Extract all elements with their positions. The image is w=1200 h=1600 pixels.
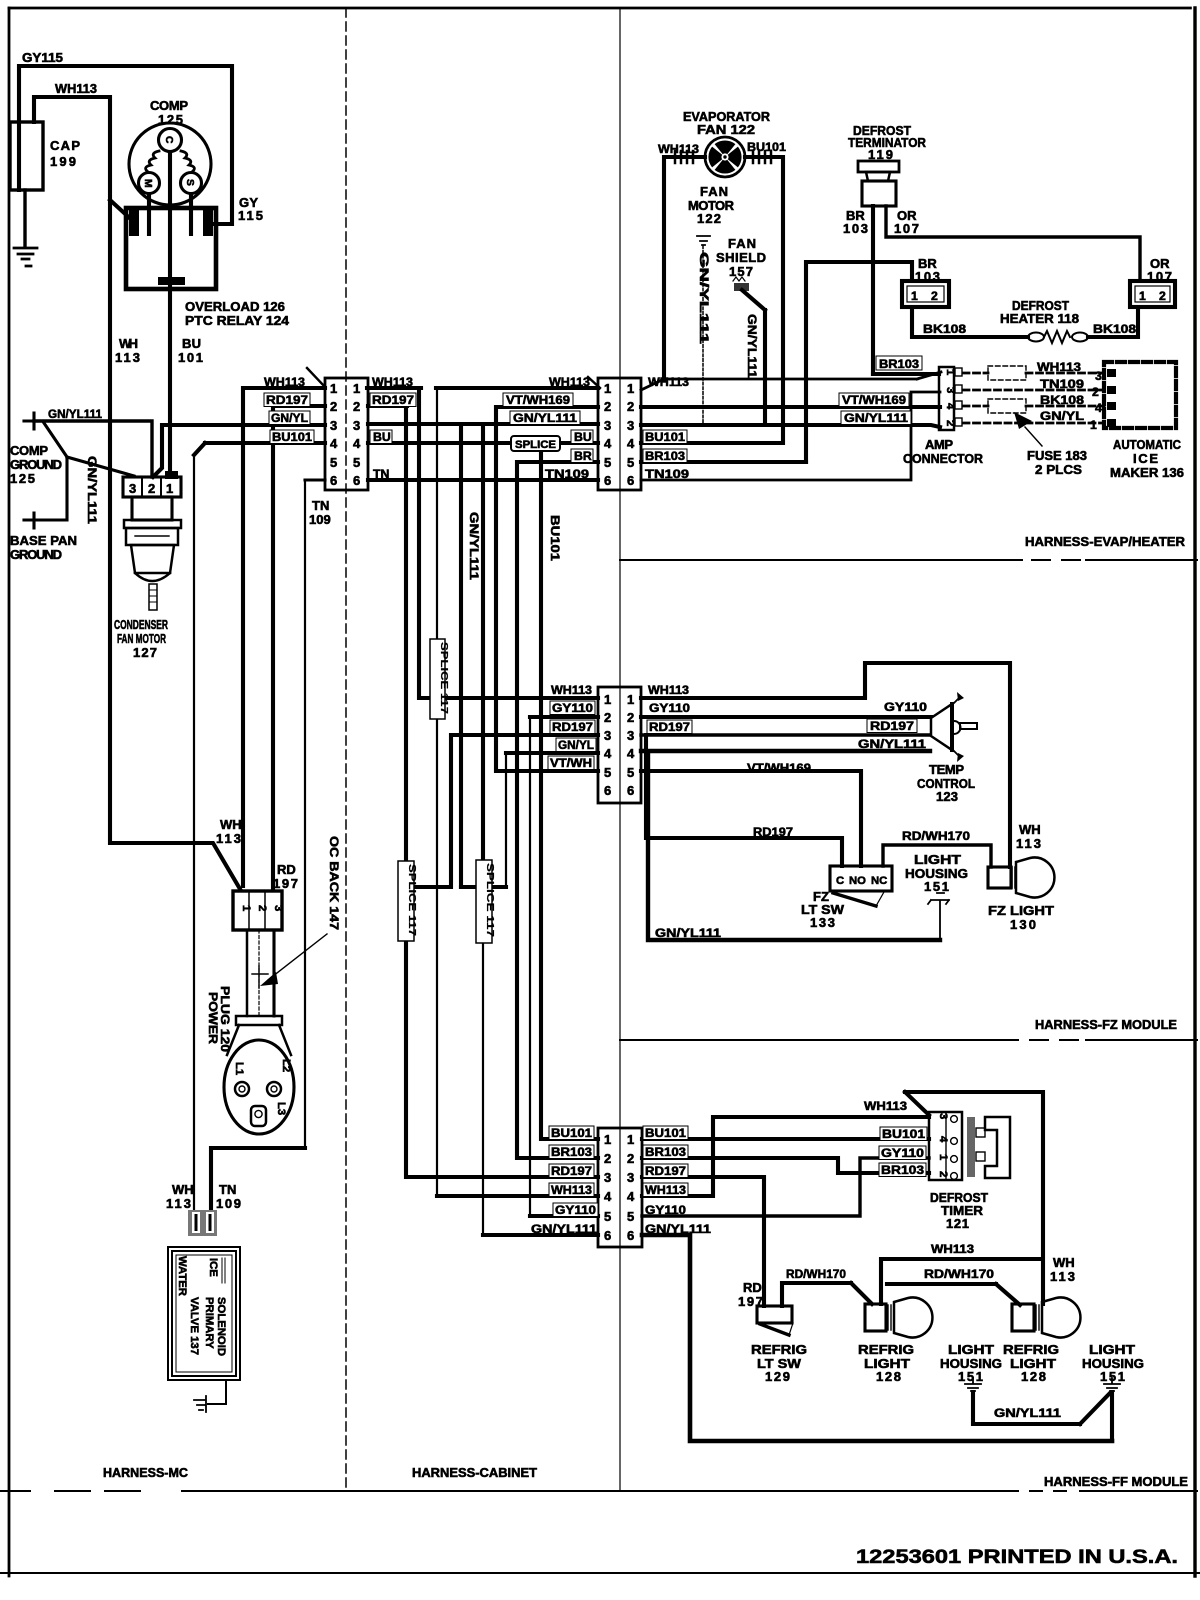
wire RD197 to temp control [641, 733, 931, 736]
svg-text:RD/WH170: RD/WH170 [902, 829, 970, 843]
svg-text:2: 2 [330, 399, 337, 414]
svg-text:2: 2 [256, 905, 268, 911]
svg-text:NC: NC [871, 875, 887, 887]
svg-text:SHIELD: SHIELD [716, 250, 766, 265]
ground (cap) [14, 248, 37, 266]
wire GN/YL111 branch to light housing ground [648, 753, 940, 940]
label GN/YL conn1 left [269, 411, 310, 425]
svg-text:BR103: BR103 [645, 449, 685, 463]
svg-text:TN109: TN109 [1040, 377, 1084, 391]
svg-text:1: 1 [604, 692, 611, 707]
wire GN/YL111 bottom run [642, 1235, 1112, 1441]
svg-text:2: 2 [1159, 289, 1166, 303]
svg-text:PLUG 120: PLUG 120 [218, 986, 232, 1052]
compressor pin C [159, 129, 182, 152]
wire WH113 from cap [34, 97, 240, 889]
svg-text:GY115: GY115 [22, 50, 63, 65]
svg-text:SPLICE 117: SPLICE 117 [406, 864, 417, 936]
svg-text:GN/YL111: GN/YL111 [994, 1406, 1061, 1420]
wire TN109 conn1 pin6 left [305, 478, 325, 481]
splice SPLICE 117 no3 [476, 860, 492, 943]
svg-text:157: 157 [729, 264, 753, 279]
svg-text:GROUND: GROUND [10, 457, 62, 472]
svg-text:RD197: RD197 [266, 393, 308, 407]
wire GY115 [19, 66, 232, 224]
svg-text:WH113: WH113 [372, 375, 413, 389]
border right [1193, 8, 1196, 1576]
svg-text:1: 1 [166, 481, 173, 496]
svg-text:3: 3 [944, 387, 956, 393]
svg-text:197: 197 [273, 876, 298, 891]
svg-text:6: 6 [353, 473, 360, 488]
svg-text:VT/WH: VT/WH [550, 756, 592, 770]
label VT/WH169 near AMP [839, 393, 909, 407]
svg-text:151: 151 [958, 1369, 983, 1384]
wire GN/YL111 to AMP [641, 425, 940, 427]
harness divider cabinet/modules [619, 8, 621, 1491]
wire BU101 conn1 pin4 left [194, 443, 325, 1210]
power plug connector 1 2 3 [233, 891, 282, 930]
label BR103 above AMP wire [876, 356, 922, 370]
compressor winding left [146, 151, 159, 172]
svg-text:3: 3 [1095, 369, 1102, 383]
svg-text:3: 3 [937, 1113, 949, 1119]
svg-text:GN/YL111: GN/YL111 [531, 1222, 597, 1236]
svg-text:5: 5 [627, 455, 634, 470]
wire RD197 to refrig lt sw [642, 1177, 764, 1306]
svg-text:HARNESS-MC: HARNESS-MC [103, 1465, 189, 1480]
ice maker box [1104, 362, 1176, 428]
ice maker pin stubs [1107, 369, 1116, 427]
connector hatch right fan wire [753, 151, 771, 163]
svg-text:C: C [163, 136, 174, 144]
svg-text:127: 127 [133, 645, 157, 660]
connector 1 2 right [1130, 281, 1175, 307]
label BR103 conn2 right [643, 449, 687, 463]
svg-text:HARNESS-FF MODULE: HARNESS-FF MODULE [1044, 1474, 1188, 1489]
svg-text:WH113: WH113 [551, 683, 592, 697]
svg-text:4: 4 [627, 746, 635, 761]
label GY110 FZ left [550, 701, 595, 715]
svg-text:6: 6 [627, 1228, 634, 1243]
svg-text:4: 4 [604, 746, 612, 761]
ground (valve) [194, 1396, 206, 1412]
compressor pin M [139, 173, 160, 194]
dashed wire GN/YL to ice maker [963, 422, 1104, 425]
splice SPLICE 117 no1 [430, 639, 445, 719]
svg-text:BU: BU [373, 430, 391, 444]
separator harness-evap/heater y560 [620, 559, 1197, 561]
wire WH113 conn1 pin1 to FZ [367, 388, 598, 698]
wire BR103 AMP feed [873, 372, 939, 376]
svg-text:5: 5 [627, 1209, 634, 1224]
svg-text:5: 5 [330, 455, 337, 470]
svg-text:3: 3 [129, 481, 136, 496]
svg-text:VT/WH169: VT/WH169 [506, 393, 570, 407]
svg-text:6: 6 [627, 473, 634, 488]
svg-text:GY110: GY110 [884, 700, 927, 714]
svg-text:GN/YL111: GN/YL111 [745, 314, 759, 378]
svg-text:2: 2 [604, 710, 611, 725]
evaporator fan 122 [705, 137, 745, 177]
svg-text:3: 3 [604, 728, 611, 743]
svg-text:4: 4 [330, 436, 338, 451]
connector 1 2 left [902, 281, 949, 307]
svg-text:SOLENOID: SOLENOID [215, 1297, 227, 1356]
connector body [188, 1210, 217, 1236]
svg-text:HARNESS-EVAP/HEATER: HARNESS-EVAP/HEATER [1025, 534, 1186, 549]
svg-text:1: 1 [627, 1132, 634, 1147]
svg-text:2: 2 [1092, 385, 1099, 399]
ground (fan motor) [697, 236, 710, 245]
wire GN/YL111 link at y887 [461, 885, 506, 889]
svg-text:GN/YL111: GN/YL111 [513, 411, 577, 425]
wire GN/YL111 branch to motor pin3 [67, 457, 134, 476]
svg-text:2: 2 [148, 481, 155, 496]
svg-text:107: 107 [894, 221, 919, 236]
svg-text:3: 3 [627, 1170, 634, 1185]
svg-text:VT/WH169: VT/WH169 [747, 761, 811, 775]
connector cabinet/FF box [598, 1128, 642, 1247]
labels FF left [549, 1126, 594, 1140]
svg-text:1: 1 [944, 369, 956, 375]
svg-text:BU101: BU101 [882, 1127, 925, 1141]
wire GN/YL111 row pin3 [368, 422, 598, 426]
wire BK108 left [912, 307, 1028, 337]
wire GN/YL111 between grounds [973, 1392, 1110, 1424]
label BR103 timer [879, 1163, 926, 1177]
svg-text:1: 1 [627, 692, 634, 707]
border left [8, 8, 11, 1576]
svg-text:GY110: GY110 [555, 1203, 596, 1217]
label RD197 conn1 right [370, 393, 416, 407]
wire GN/YL111 tap A [459, 424, 463, 887]
svg-text:COMP: COMP [10, 443, 48, 458]
svg-text:129: 129 [765, 1369, 790, 1384]
AMP connector body [939, 367, 954, 430]
wire GY110 to timer [642, 1158, 929, 1216]
svg-text:119: 119 [868, 147, 893, 162]
svg-text:PTC RELAY 124: PTC RELAY 124 [185, 313, 290, 328]
fuse arrow [1025, 427, 1042, 446]
dashed wire BK108 to ice maker [963, 405, 1104, 408]
svg-text:115: 115 [238, 208, 263, 223]
svg-text:OVERLOAD 126: OVERLOAD 126 [185, 299, 285, 314]
AMP right contacts [955, 368, 962, 376]
svg-text:BU101: BU101 [645, 430, 685, 444]
svg-text:2 PLCS: 2 PLCS [1035, 462, 1082, 477]
svg-text:BR: BR [574, 449, 592, 463]
svg-text:TN109: TN109 [545, 467, 589, 481]
splice SPLICE 117 no2 [398, 861, 414, 941]
refrig light 128 no2 [1012, 1298, 1080, 1338]
svg-text:3: 3 [627, 418, 634, 433]
SPLICE box pin4 [511, 436, 560, 451]
connector MC/cabinet box [325, 378, 368, 490]
svg-text:FAN: FAN [700, 184, 728, 199]
svg-text:FAN: FAN [728, 236, 756, 251]
heater element [1044, 331, 1070, 343]
svg-text:101: 101 [178, 350, 203, 365]
svg-text:CAP: CAP [50, 138, 80, 153]
svg-text:WH113: WH113 [864, 1099, 907, 1113]
svg-text:1: 1 [330, 381, 337, 396]
wire S pin [189, 194, 193, 234]
wire VT/WH169 to switch NO [641, 771, 861, 866]
dashed wire TN109 to ice maker [963, 389, 1104, 392]
svg-text:6: 6 [604, 473, 611, 488]
svg-text:2: 2 [944, 420, 956, 426]
svg-text:WATER: WATER [176, 1256, 188, 1296]
svg-text:2: 2 [931, 289, 938, 303]
label VT/WH169 conn2 left [503, 393, 573, 407]
svg-text:C: C [836, 875, 844, 887]
svg-text:BU101: BU101 [548, 515, 562, 561]
svg-text:6: 6 [330, 473, 337, 488]
label RD197 conn1 left [264, 393, 310, 407]
svg-text:WH: WH [1053, 1255, 1075, 1270]
svg-text:113: 113 [216, 831, 241, 846]
arrow from OC BACK 147 [268, 934, 327, 980]
wire BU101 compressor C down to motor pin1 [168, 152, 172, 474]
wire M pin [147, 194, 151, 234]
svg-text:113: 113 [166, 1196, 191, 1211]
wire GY110 to temp control [641, 715, 931, 719]
svg-text:RD197: RD197 [870, 719, 914, 733]
svg-text:MAKER 136: MAKER 136 [1110, 465, 1184, 480]
svg-text:BU101: BU101 [272, 430, 312, 444]
svg-text:LIGHT: LIGHT [1089, 1342, 1135, 1357]
wire BU101 to defrost timer [642, 1137, 929, 1141]
ground (light housing 2) [1104, 1378, 1120, 1391]
svg-text:5: 5 [604, 1209, 611, 1224]
label BU conn1 right [370, 430, 392, 444]
svg-text:WH113: WH113 [55, 81, 97, 96]
wire VT/WH169 to FZ pin5 [496, 407, 598, 771]
motor connector 3 2 1 [123, 477, 181, 497]
svg-text:BK108: BK108 [1040, 393, 1084, 407]
svg-text:GY110: GY110 [645, 1203, 686, 1217]
wire WH113 FZ right to light [641, 663, 1010, 867]
svg-text:RD: RD [277, 862, 296, 877]
svg-text:197: 197 [738, 1294, 763, 1309]
wire GN/YL111 to motor pin2 [34, 421, 152, 477]
wire BR103 branch to conn1-2 [806, 262, 912, 462]
wire GN/YL111 branch to base pan ground [24, 423, 67, 528]
svg-text:HARNESS-CABINET: HARNESS-CABINET [412, 1465, 537, 1480]
svg-text:5: 5 [604, 765, 611, 780]
wire BR103 terminator down [871, 206, 875, 374]
wire RD197 conn1 pin2 to splice to FF pin3 [368, 406, 598, 1177]
svg-text:2: 2 [604, 399, 611, 414]
svg-text:RD197: RD197 [372, 393, 414, 407]
svg-text:TN: TN [373, 467, 390, 481]
svg-text:VALVE 137: VALVE 137 [188, 1297, 200, 1355]
svg-text:REFRIG: REFRIG [1003, 1342, 1059, 1357]
wire GN/YL111 fan shield [742, 290, 765, 424]
svg-text:1: 1 [1090, 418, 1097, 432]
svg-text:GN/YL: GN/YL [1040, 409, 1085, 423]
fan shield hatch [734, 283, 749, 291]
plug flare [227, 1025, 291, 1055]
svg-text:BASE PAN: BASE PAN [10, 533, 77, 548]
wire BU101 tap to FF pin1 [541, 443, 598, 1139]
wire WH113 tap to overload [110, 200, 134, 222]
overload bottom element [158, 277, 185, 285]
capacitor CAP 199 [10, 122, 43, 190]
svg-text:L3: L3 [275, 1102, 287, 1115]
wire OR107 terminator [886, 206, 1140, 281]
svg-text:123: 123 [936, 789, 958, 804]
label pointer diagonal conn2 pin1 [588, 377, 600, 388]
compressor winding right [181, 151, 194, 172]
label GN/YL111 conn2 left [510, 411, 580, 425]
svg-text:FAN 122: FAN 122 [697, 122, 755, 137]
svg-text:BU: BU [574, 430, 592, 444]
wire RD/WH170 switch NC to light [883, 845, 991, 867]
svg-text:121: 121 [946, 1216, 969, 1231]
svg-text:3: 3 [272, 905, 284, 911]
svg-text:4: 4 [627, 436, 635, 451]
wire RD197 FZ pin3 riser [415, 735, 598, 887]
svg-text:BR103: BR103 [879, 357, 919, 371]
label RD197 FZ left [550, 720, 595, 734]
ICE underline [222, 1258, 225, 1283]
svg-text:GN/YL111: GN/YL111 [48, 407, 102, 421]
svg-text:1: 1 [1139, 289, 1146, 303]
label RD197 near temp control [867, 719, 917, 733]
heater bead left [1028, 333, 1044, 342]
svg-text:BU101: BU101 [747, 140, 786, 154]
wire WH113 conn1 pin1 left [243, 388, 325, 886]
wire GN/YL111 fan motor ground [702, 246, 704, 424]
svg-text:RD197: RD197 [645, 1164, 686, 1178]
svg-text:GN/YL111: GN/YL111 [85, 456, 99, 524]
border bottom [0, 1572, 1200, 1574]
defrost timer 121 [929, 1112, 962, 1180]
label BU101 conn1 left [270, 430, 314, 444]
wire BK108 right [1088, 307, 1138, 337]
timer hatch bar [967, 1117, 975, 1177]
svg-text:GY110: GY110 [552, 701, 593, 715]
svg-text:113: 113 [1016, 836, 1041, 851]
svg-text:103: 103 [843, 221, 868, 236]
svg-text:SPLICE: SPLICE [515, 439, 556, 451]
svg-text:L1: L1 [233, 1062, 245, 1075]
svg-text:125: 125 [10, 471, 35, 486]
wire GN/YL111 to conn1 pin3 [153, 425, 325, 477]
wire BR103 pin5 to FF pin2 [517, 462, 598, 1158]
svg-text:6: 6 [604, 1228, 611, 1243]
harness divider dashed MC/cabinet [345, 8, 347, 1491]
label BR conn2 left [571, 449, 593, 463]
svg-text:1: 1 [353, 381, 360, 396]
ground (fz light housing) [928, 893, 949, 940]
wire BR103 conn2 pin5 right [641, 460, 806, 464]
svg-text:REFRIG: REFRIG [751, 1342, 807, 1357]
overload / PTC relay box [126, 208, 216, 289]
water valve box [168, 1247, 240, 1380]
svg-text:L2: L2 [280, 1059, 292, 1072]
plug face [224, 1040, 294, 1134]
label GN/YL111 near AMP [841, 411, 911, 425]
FZ light 130 [988, 858, 1054, 898]
svg-text:133: 133 [810, 915, 835, 930]
motor body [132, 497, 172, 520]
labels FF right [643, 1126, 688, 1140]
svg-text:WH113: WH113 [549, 375, 590, 389]
label GY110 timer [879, 1146, 926, 1160]
compressor COMP 125 shell [129, 123, 211, 205]
svg-text:199: 199 [50, 154, 76, 169]
svg-text:151: 151 [1100, 1369, 1125, 1384]
svg-text:RD/WH170: RD/WH170 [924, 1267, 994, 1281]
svg-text:M: M [142, 179, 153, 188]
svg-text:1: 1 [937, 1154, 949, 1160]
svg-text:GN/YL: GN/YL [558, 738, 594, 752]
compressor pin S [181, 173, 202, 194]
svg-text:WH113: WH113 [1037, 360, 1081, 374]
wire WH113 conn2 pin1 splice branch [436, 386, 598, 390]
svg-text:3: 3 [330, 418, 337, 433]
svg-text:VT/WH169: VT/WH169 [842, 393, 906, 407]
svg-text:POWER: POWER [206, 992, 220, 1044]
svg-text:3: 3 [604, 1170, 611, 1185]
dashed wire WH113 to ice maker [963, 372, 1104, 375]
wire BU101 row pin4 [368, 441, 598, 445]
pin L2 [267, 1082, 281, 1096]
svg-text:AUTOMATIC: AUTOMATIC [1113, 437, 1182, 452]
svg-text:FZ LIGHT: FZ LIGHT [988, 903, 1054, 918]
wire VT/WH169 to AMP [641, 405, 940, 409]
svg-text:GN/YL111: GN/YL111 [645, 1222, 711, 1236]
svg-text:WH113: WH113 [648, 683, 689, 697]
motor shaft [149, 584, 157, 610]
svg-text:1: 1 [240, 905, 252, 911]
wire RD197 conn1 pin2 left [273, 406, 325, 889]
svg-text:5: 5 [604, 455, 611, 470]
svg-text:CONDENSER: CONDENSER [114, 617, 168, 632]
fan shield tick [733, 277, 745, 281]
overload left tab [129, 209, 139, 236]
wire RD197 branch to FZ light switch [646, 735, 842, 866]
svg-text:ICE: ICE [207, 1258, 219, 1277]
svg-text:S: S [184, 179, 195, 186]
svg-text:6: 6 [627, 783, 634, 798]
svg-text:2: 2 [937, 1171, 949, 1177]
valve ground wire [208, 1380, 226, 1404]
svg-text:113: 113 [1050, 1269, 1075, 1284]
svg-text:WH: WH [119, 336, 138, 351]
fan blades [708, 140, 741, 173]
svg-text:FAN MOTOR: FAN MOTOR [117, 631, 166, 646]
svg-text:RD197: RD197 [552, 720, 593, 734]
svg-text:RD197: RD197 [753, 825, 793, 839]
fuse 183 upper [988, 366, 1026, 380]
FZ light switch 133 [830, 866, 892, 906]
svg-text:GY110: GY110 [649, 701, 690, 715]
svg-text:3: 3 [604, 418, 611, 433]
svg-text:113: 113 [115, 350, 140, 365]
wire GN/YL111 tap B through splice3 to FF pin6 [481, 424, 485, 860]
label BU101 timer [880, 1127, 927, 1141]
svg-text:BU101: BU101 [551, 1126, 592, 1140]
wire BR103 to defrost timer [642, 1158, 929, 1173]
wire WH113 evap fan left [641, 372, 941, 390]
svg-text:AMP: AMP [925, 437, 953, 452]
svg-text:SPLICE 117: SPLICE 117 [438, 642, 449, 714]
svg-text:BR103: BR103 [881, 1163, 924, 1177]
